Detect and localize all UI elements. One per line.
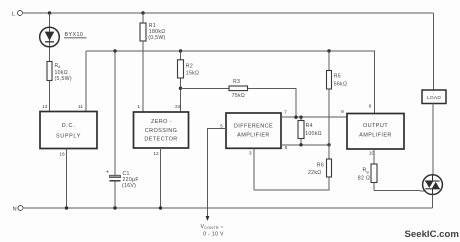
wire pin 3 bbox=[253, 148, 255, 190]
wire top rail bbox=[22, 12, 433, 14]
svg-text:R6: R6 bbox=[317, 163, 324, 169]
resistor R2 bbox=[178, 51, 200, 78]
svg-text:BYX10: BYX10 bbox=[65, 32, 84, 38]
svg-text:6: 6 bbox=[285, 145, 288, 151]
svg-text:LOAD: LOAD bbox=[427, 95, 441, 101]
svg-text:(16V): (16V) bbox=[122, 183, 136, 189]
svg-text:3: 3 bbox=[249, 151, 252, 157]
wire pin 11 branch bbox=[85, 51, 87, 112]
node R2 bottom / R3 bbox=[179, 87, 182, 90]
wire diode branch bbox=[49, 13, 51, 62]
wire triac to N rail bbox=[432, 195, 434, 209]
wire bottom rail N bbox=[23, 207, 433, 209]
capacitor C1 bbox=[106, 51, 139, 208]
resistor Rd bbox=[47, 62, 72, 83]
resistor R4 bbox=[298, 117, 322, 145]
svg-text:(5,5W): (5,5W) bbox=[55, 76, 72, 82]
D.C. supply U1 bbox=[40, 104, 97, 157]
difference amplifier U3 bbox=[220, 110, 288, 157]
svg-text:56kΩ: 56kΩ bbox=[334, 82, 347, 88]
svg-text:10kΩ: 10kΩ bbox=[55, 70, 68, 76]
svg-text:R3: R3 bbox=[233, 79, 240, 85]
triac Q1 bbox=[423, 175, 443, 195]
node second rail / R5 branch bbox=[327, 49, 330, 52]
node top rail / R1 branch bbox=[141, 11, 144, 14]
node R3 join bbox=[294, 116, 297, 119]
node top rail / diode branch bbox=[48, 11, 51, 14]
resistor R1 bbox=[140, 13, 166, 41]
svg-text:L: L bbox=[12, 11, 15, 17]
node N rail / C1 bbox=[113, 206, 116, 209]
svg-text:ZERO -: ZERO - bbox=[151, 119, 172, 125]
svg-text:220µF: 220µF bbox=[123, 177, 139, 183]
svg-text:+: + bbox=[106, 170, 109, 176]
wire Rd to pin 13 bbox=[49, 81, 51, 112]
svg-text:R4: R4 bbox=[306, 123, 313, 129]
resistor R6 bbox=[254, 145, 332, 190]
terminal L bbox=[12, 11, 22, 18]
svg-text:1: 1 bbox=[137, 104, 140, 110]
node R5/R6 join bbox=[327, 143, 330, 146]
diode D1 BYX10 bbox=[40, 27, 87, 47]
svg-text:82 Ω: 82 Ω bbox=[358, 175, 370, 181]
svg-text:12: 12 bbox=[153, 151, 159, 157]
svg-text:CROSSING: CROSSING bbox=[145, 128, 178, 134]
svg-text:16: 16 bbox=[59, 151, 65, 157]
node R4 top bbox=[299, 116, 302, 119]
wire gate to triac bbox=[374, 189, 425, 192]
svg-text:R2: R2 bbox=[186, 63, 193, 69]
svg-text:24: 24 bbox=[175, 104, 181, 110]
svg-text:7: 7 bbox=[284, 110, 287, 116]
wire pin 12 to N rail bbox=[160, 148, 162, 208]
wire pin 16 to N rail bbox=[66, 149, 68, 209]
wire R1 to pin 1 bbox=[142, 41, 144, 112]
svg-text:11: 11 bbox=[78, 104, 83, 110]
resistor R3 bbox=[181, 79, 297, 117]
svg-text:(0,5W): (0,5W) bbox=[148, 35, 165, 41]
svg-text:D.C.: D.C. bbox=[62, 123, 76, 129]
svg-text:OUTPUT: OUTPUT bbox=[363, 123, 388, 129]
wire R2 to pin 24 bbox=[180, 78, 182, 112]
svg-text:8: 8 bbox=[369, 104, 372, 110]
load bbox=[422, 90, 446, 104]
wire second rail to pin 8 bbox=[86, 51, 375, 114]
node R4 bottom bbox=[299, 143, 302, 146]
node second rail / R2 branch bbox=[179, 49, 182, 52]
svg-text:C1: C1 bbox=[123, 171, 130, 177]
svg-text:9: 9 bbox=[341, 109, 344, 115]
wire pin 7 to pin 9 bbox=[281, 116, 347, 118]
output amplifier U4 bbox=[341, 104, 404, 157]
resistor Rg bbox=[358, 149, 377, 190]
svg-text:SUPPLY: SUPPLY bbox=[56, 133, 81, 139]
svg-text:AMPLIFIER: AMPLIFIER bbox=[237, 132, 270, 138]
svg-text:22kΩ: 22kΩ bbox=[308, 170, 321, 176]
node second rail / C1 branch bbox=[113, 49, 116, 52]
zero-crossing detector U2 bbox=[134, 104, 189, 157]
svg-text:100kΩ: 100kΩ bbox=[305, 131, 322, 137]
wire pin 5 / V contr input bbox=[201, 129, 227, 238]
node N rail / pin 16 bbox=[65, 206, 68, 209]
resistor R5 bbox=[327, 51, 348, 145]
wire pin 6 bbox=[281, 144, 329, 146]
svg-text:N: N bbox=[13, 206, 17, 212]
svg-text:75kΩ: 75kΩ bbox=[232, 93, 245, 99]
svg-text:DETECTOR: DETECTOR bbox=[144, 137, 177, 143]
svg-text:13: 13 bbox=[42, 104, 48, 110]
svg-text:180kΩ: 180kΩ bbox=[149, 29, 166, 35]
svg-text:15kΩ: 15kΩ bbox=[186, 71, 199, 77]
svg-text:Rd: Rd bbox=[55, 63, 61, 69]
wire load to triac bbox=[432, 104, 434, 175]
svg-text:SeekIC.com: SeekIC.com bbox=[405, 229, 459, 240]
svg-text:R5: R5 bbox=[334, 74, 341, 80]
svg-text:AMPLIFIER: AMPLIFIER bbox=[359, 133, 392, 139]
svg-text:0 - 10 V: 0 - 10 V bbox=[203, 232, 224, 238]
svg-text:DIFFERENCE: DIFFERENCE bbox=[234, 123, 273, 129]
terminal N bbox=[13, 206, 23, 213]
node N rail / pin 12 bbox=[159, 206, 162, 209]
wire right side drop to load bbox=[433, 13, 435, 90]
